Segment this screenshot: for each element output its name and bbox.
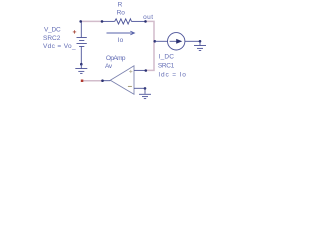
svg-text:out: out	[143, 14, 153, 21]
ground under op-amp minus input	[139, 88, 151, 98]
svg-text:Ro: Ro	[117, 9, 126, 16]
plus sign of SRC2	[73, 30, 76, 33]
svg-text:Av: Av	[105, 63, 113, 70]
op-amp minus input stub	[134, 87, 145, 89]
node: op-amp plus input pin	[145, 69, 148, 72]
svg-text:SRC1: SRC1	[158, 62, 175, 69]
resistor R1	[102, 19, 146, 24]
op-amp plus input stub	[134, 69, 146, 71]
node: V_DC bottom pin	[80, 63, 83, 66]
op-amp U1 triangle (mirrored, output apex at left)	[110, 66, 134, 95]
op-amp output lead	[103, 80, 111, 82]
wire net out: resistor right pin to corner, down to op-amp plus input	[146, 21, 155, 70]
plus mark of op-amp	[129, 70, 132, 73]
svg-text:OpAmp: OpAmp	[106, 55, 126, 62]
svg-text:Io: Io	[118, 37, 124, 44]
node: resistor right pin (out)	[144, 20, 147, 23]
wire op-amp output	[82, 80, 103, 82]
node: V_DC top pin / wire corner	[79, 20, 82, 23]
voltage source SRC2	[77, 21, 87, 64]
ground right of SRC1	[194, 41, 206, 50]
svg-text:I_DC: I_DC	[159, 54, 175, 61]
node: op-amp minus input pin	[144, 87, 147, 90]
svg-text:Idc = Io: Idc = Io	[158, 71, 186, 78]
node: resistor left pin	[101, 20, 104, 23]
minus mark of op-amp	[128, 85, 132, 87]
red open-end marker on op-amp output wire	[81, 80, 84, 83]
svg-text:R: R	[118, 1, 123, 8]
ground under SRC2	[75, 64, 87, 73]
current source SRC1	[155, 33, 200, 50]
node: op-amp output pin	[101, 79, 104, 82]
svg-text:V_DC: V_DC	[44, 26, 61, 33]
node: SRC1 right pin	[199, 40, 202, 43]
node: tee junction of out net with I_DC	[154, 40, 157, 43]
wire from V_DC top to resistor R1 left pin	[81, 20, 103, 22]
current direction arrow Io	[107, 31, 135, 35]
svg-text:SRC2: SRC2	[43, 35, 61, 42]
svg-text:Vdc = Vo_: Vdc = Vo_	[43, 43, 76, 50]
arrowhead inside SRC1	[176, 39, 182, 44]
